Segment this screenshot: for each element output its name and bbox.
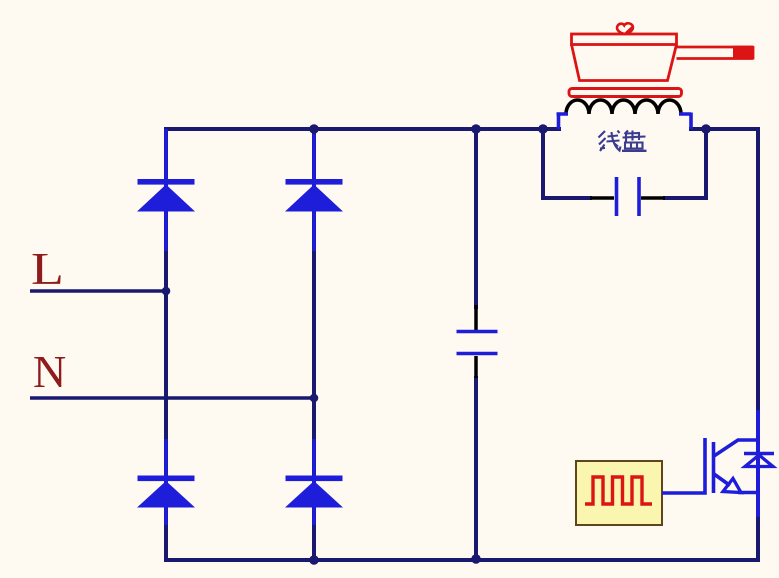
junction dot coil left: [538, 124, 548, 134]
wire right rail bright section: [756, 410, 760, 517]
pot handle: [677, 46, 754, 60]
lead black capacitor C1 top: [474, 305, 478, 331]
diode D4 (bottom-right of bridge): [285, 439, 343, 525]
lead black capacitor C2 left: [590, 196, 614, 200]
pot handle tip (solid): [733, 46, 754, 60]
coil left lead step (blue): [557, 113, 569, 130]
IGBT Q1 emitter wire to rail: [738, 491, 760, 495]
wire top bus right stub: [689, 127, 760, 131]
label 线盘 (coil plate) hand strokes: [599, 131, 621, 152]
wire resonant loop left vertical: [541, 129, 545, 200]
IGBT Q1 emitter arrow: [723, 479, 741, 493]
junction dot top bus at bridge column 2: [309, 124, 319, 134]
junction dot L input: [162, 287, 171, 296]
diode D2 (top-right of bridge): [285, 130, 343, 251]
diode D3 (bottom-left): [137, 439, 195, 525]
wire L input: [30, 289, 168, 293]
IGBT Q1 emitter lead: [714, 474, 730, 486]
coil right lead step (blue): [679, 113, 691, 130]
pot body (red pan): [572, 34, 677, 81]
wire resonant loop bottom right: [663, 196, 708, 200]
IGBT Q1 body bar: [712, 442, 716, 493]
IGBT Q1 collector lead: [714, 440, 759, 456]
lead black capacitor C1 bottom: [474, 356, 478, 378]
wire top bus left: [164, 127, 561, 131]
junction dot coil right: [701, 124, 711, 134]
svg-text:N: N: [33, 346, 66, 397]
svg-text:L: L: [31, 243, 64, 294]
pot base plate: [569, 89, 682, 97]
inductor coil (line pan coil) black arcs: [566, 100, 681, 114]
junction dot bottom bus at middle column: [471, 554, 481, 564]
wire right rail: [756, 127, 760, 562]
lead black capacitor C2 right: [641, 196, 665, 200]
capacitor C1 plates (filter cap): [457, 332, 498, 354]
wire bridge column 2: [312, 129, 316, 562]
wire middle column lower: [474, 376, 478, 562]
junction dot bottom bus at bridge column 2: [309, 555, 319, 565]
wire middle column upper: [474, 129, 478, 309]
junction dot N input: [310, 394, 319, 403]
junction dot top bus at middle column: [471, 124, 481, 134]
capacitor C2 plates (resonant cap): [617, 177, 640, 216]
wire left rail: [164, 127, 168, 562]
PWM source box: [576, 461, 662, 525]
PWM square wave: [585, 477, 652, 504]
freewheel diode D5 triangle: [745, 455, 773, 467]
pot lid knob: [617, 23, 633, 34]
wire resonant loop bottom left: [541, 196, 592, 200]
wire gate (blue): [662, 438, 705, 493]
wire bottom bus: [164, 558, 760, 562]
freewheel diode D5 cathode bar: [744, 452, 774, 456]
wire N input: [30, 396, 316, 400]
diode D1 (top-left): [137, 129, 195, 251]
wire resonant loop right vertical: [704, 129, 708, 200]
